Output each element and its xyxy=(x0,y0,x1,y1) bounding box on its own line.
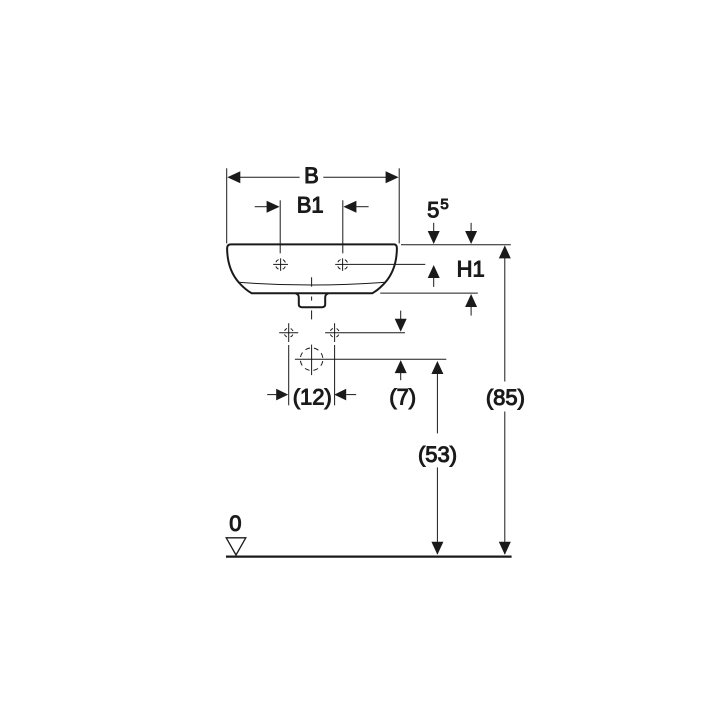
svg-text:0: 0 xyxy=(229,511,241,536)
svg-text:B: B xyxy=(304,163,319,188)
drain box xyxy=(296,294,328,308)
svg-text:(12): (12) xyxy=(293,385,332,410)
dimension 7 arrows xyxy=(395,311,407,381)
floor line xyxy=(226,555,512,557)
wall hole right xyxy=(325,323,344,342)
wire lower-hole line xyxy=(344,332,405,334)
svg-text:(85): (85) xyxy=(486,385,525,410)
svg-text:5: 5 xyxy=(427,197,439,222)
wire basin bottom extension xyxy=(380,292,478,294)
dimension H1 arrows xyxy=(465,223,477,316)
basin inner rim arc xyxy=(239,282,385,285)
dimension B1 xyxy=(255,200,369,253)
dimension 53 xyxy=(431,361,443,555)
svg-text:(53): (53) xyxy=(418,442,457,467)
wall hole left xyxy=(279,323,298,342)
tap hole left xyxy=(273,258,288,271)
dimension 12 xyxy=(267,345,356,405)
dimension 5.5 arrows xyxy=(428,223,440,287)
basin outline xyxy=(227,244,397,293)
wire tap hole extension xyxy=(350,263,425,265)
dimension 85 xyxy=(499,245,511,554)
svg-text:(7): (7) xyxy=(389,385,416,410)
drain outlet circle xyxy=(295,345,446,376)
dimension B xyxy=(227,168,400,243)
tap hole right xyxy=(335,258,350,271)
svg-text:H1: H1 xyxy=(457,256,485,281)
svg-text:B1: B1 xyxy=(297,193,324,218)
wire rim extension xyxy=(401,244,511,246)
datum triangle xyxy=(226,538,246,555)
centerline xyxy=(311,277,313,319)
svg-text:5: 5 xyxy=(440,196,448,213)
